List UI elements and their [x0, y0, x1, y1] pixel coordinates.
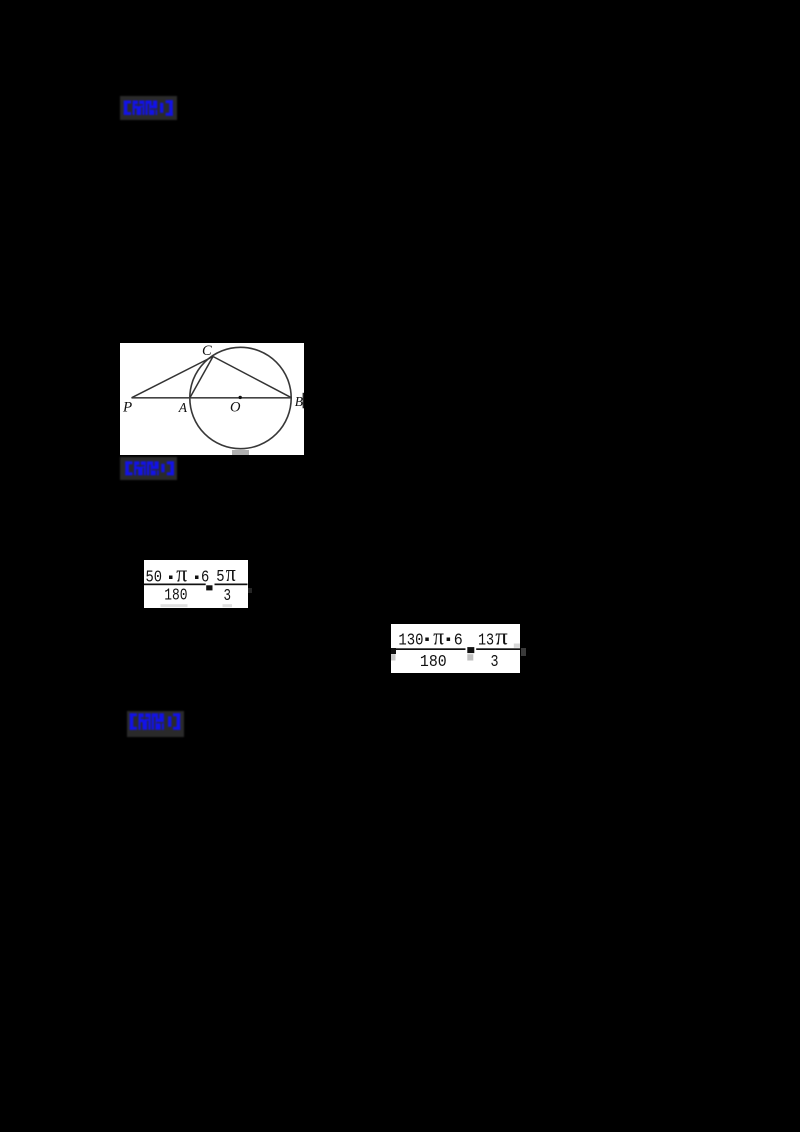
chord C-A — [189, 356, 212, 397]
comma after formula 2 — [521, 648, 526, 656]
char 1 — [132, 101, 144, 116]
svg-text:B: B — [294, 394, 302, 409]
line P-B (secant through A, O) — [131, 396, 291, 398]
gray handle tab — [232, 450, 249, 455]
formula image 2: (130*pi*6)/180 = 13pi/3 — [391, 624, 520, 674]
label [answer] blue tag 2 — [120, 457, 178, 480]
svg-text:C: C — [202, 343, 212, 359]
fraction bar left — [395, 648, 466, 650]
svg-text:π: π — [433, 624, 444, 650]
faint smudges — [161, 604, 188, 607]
svg-text:13: 13 — [478, 631, 494, 650]
left bracket — [123, 101, 127, 116]
geometry figure white box — [120, 343, 305, 455]
center dot O — [238, 395, 241, 398]
fraction bar right — [215, 584, 248, 586]
fraction bar left — [144, 584, 206, 586]
top right gray — [514, 643, 520, 647]
fraction bar right — [476, 648, 520, 650]
label [comment] blue tag 3 — [127, 711, 184, 738]
comma after formula 1 — [248, 588, 252, 593]
svg-text:P: P — [122, 399, 132, 415]
label [analysis] blue tag 1 — [120, 96, 177, 120]
svg-text:π: π — [495, 624, 508, 650]
left edge black nub — [391, 648, 396, 654]
formula image 1: (50*pi*6)/180 = 5pi/3 — [144, 560, 248, 608]
circle O — [189, 347, 290, 448]
chord C-B — [213, 356, 292, 397]
svg-text:130: 130 — [398, 631, 423, 650]
cursor bar at right edge — [302, 392, 304, 408]
svg-text:3: 3 — [224, 587, 232, 606]
right bracket — [169, 100, 173, 116]
svg-text:6: 6 — [454, 631, 463, 650]
equals blob — [206, 585, 212, 590]
svg-text:π: π — [226, 561, 236, 587]
equals blob — [467, 647, 474, 653]
line P-C (tangent) — [131, 356, 213, 397]
svg-text:180: 180 — [420, 653, 447, 672]
svg-text:A: A — [177, 399, 187, 414]
svg-text:3: 3 — [491, 653, 499, 672]
char 2 — [145, 101, 157, 116]
svg-text:180: 180 — [164, 587, 187, 606]
svg-text:O: O — [230, 399, 241, 415]
